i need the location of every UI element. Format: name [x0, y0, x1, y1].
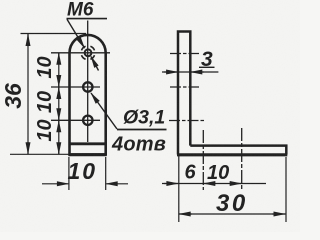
extension line left (shared 6 and 30): [178, 156, 180, 222]
side view hole centerline at level 1: [170, 53, 199, 55]
dimension 3: dimension line with outside arrows: [162, 71, 218, 73]
vertical centerline through holes: [87, 21, 89, 143]
dimension 6/10: dimension line: [162, 183, 266, 185]
flange hole centerline A: [202, 130, 204, 190]
dimension 36: bottom extension line: [10, 153, 69, 155]
hole H3: [83, 116, 92, 125]
side view hole centerline at level 2: [170, 86, 199, 88]
dimension 3 underline: [199, 66, 215, 68]
extra leader arrow to hole H1: [91, 57, 99, 71]
hole H1 thread arc: [82, 46, 95, 59]
extension line right for 30: [285, 157, 287, 222]
dimension 36: top extension line: [21, 33, 87, 35]
dimension 30: dimension line: [179, 213, 286, 215]
hole H3 centerline: [51, 119, 100, 121]
hole H1 minor circle: [85, 49, 92, 56]
bottom edge thick: [69, 153, 107, 156]
side view: horizontal leg bottom edge thick: [177, 153, 287, 156]
dimension 10 (width): dimension line with outside arrows: [42, 183, 68, 185]
dimension 36: dimension line: [27, 34, 29, 154]
hole H2: [83, 82, 92, 91]
hole H2 centerline: [51, 86, 100, 88]
M6 underline: [67, 18, 108, 20]
dimension 10 (width): extension lines: [68, 157, 70, 190]
front view bracket outline: [70, 35, 106, 155]
side view hole centerline at level 3: [169, 120, 204, 122]
M6 leader with arrow: [67, 19, 85, 48]
diameter note underline: [117, 129, 167, 131]
chain dimension line 10/10/10: [58, 53, 60, 155]
side view: vertical leg: [178, 32, 190, 155]
bend line (flange edge in front view): [70, 142, 106, 145]
side view: horizontal leg top edge: [190, 146, 286, 155]
flange hole centerline B: [241, 128, 243, 191]
diameter note leader to hole H2: [91, 93, 117, 129]
hole H1 threaded M6: horizontal centerline: [51, 52, 110, 54]
